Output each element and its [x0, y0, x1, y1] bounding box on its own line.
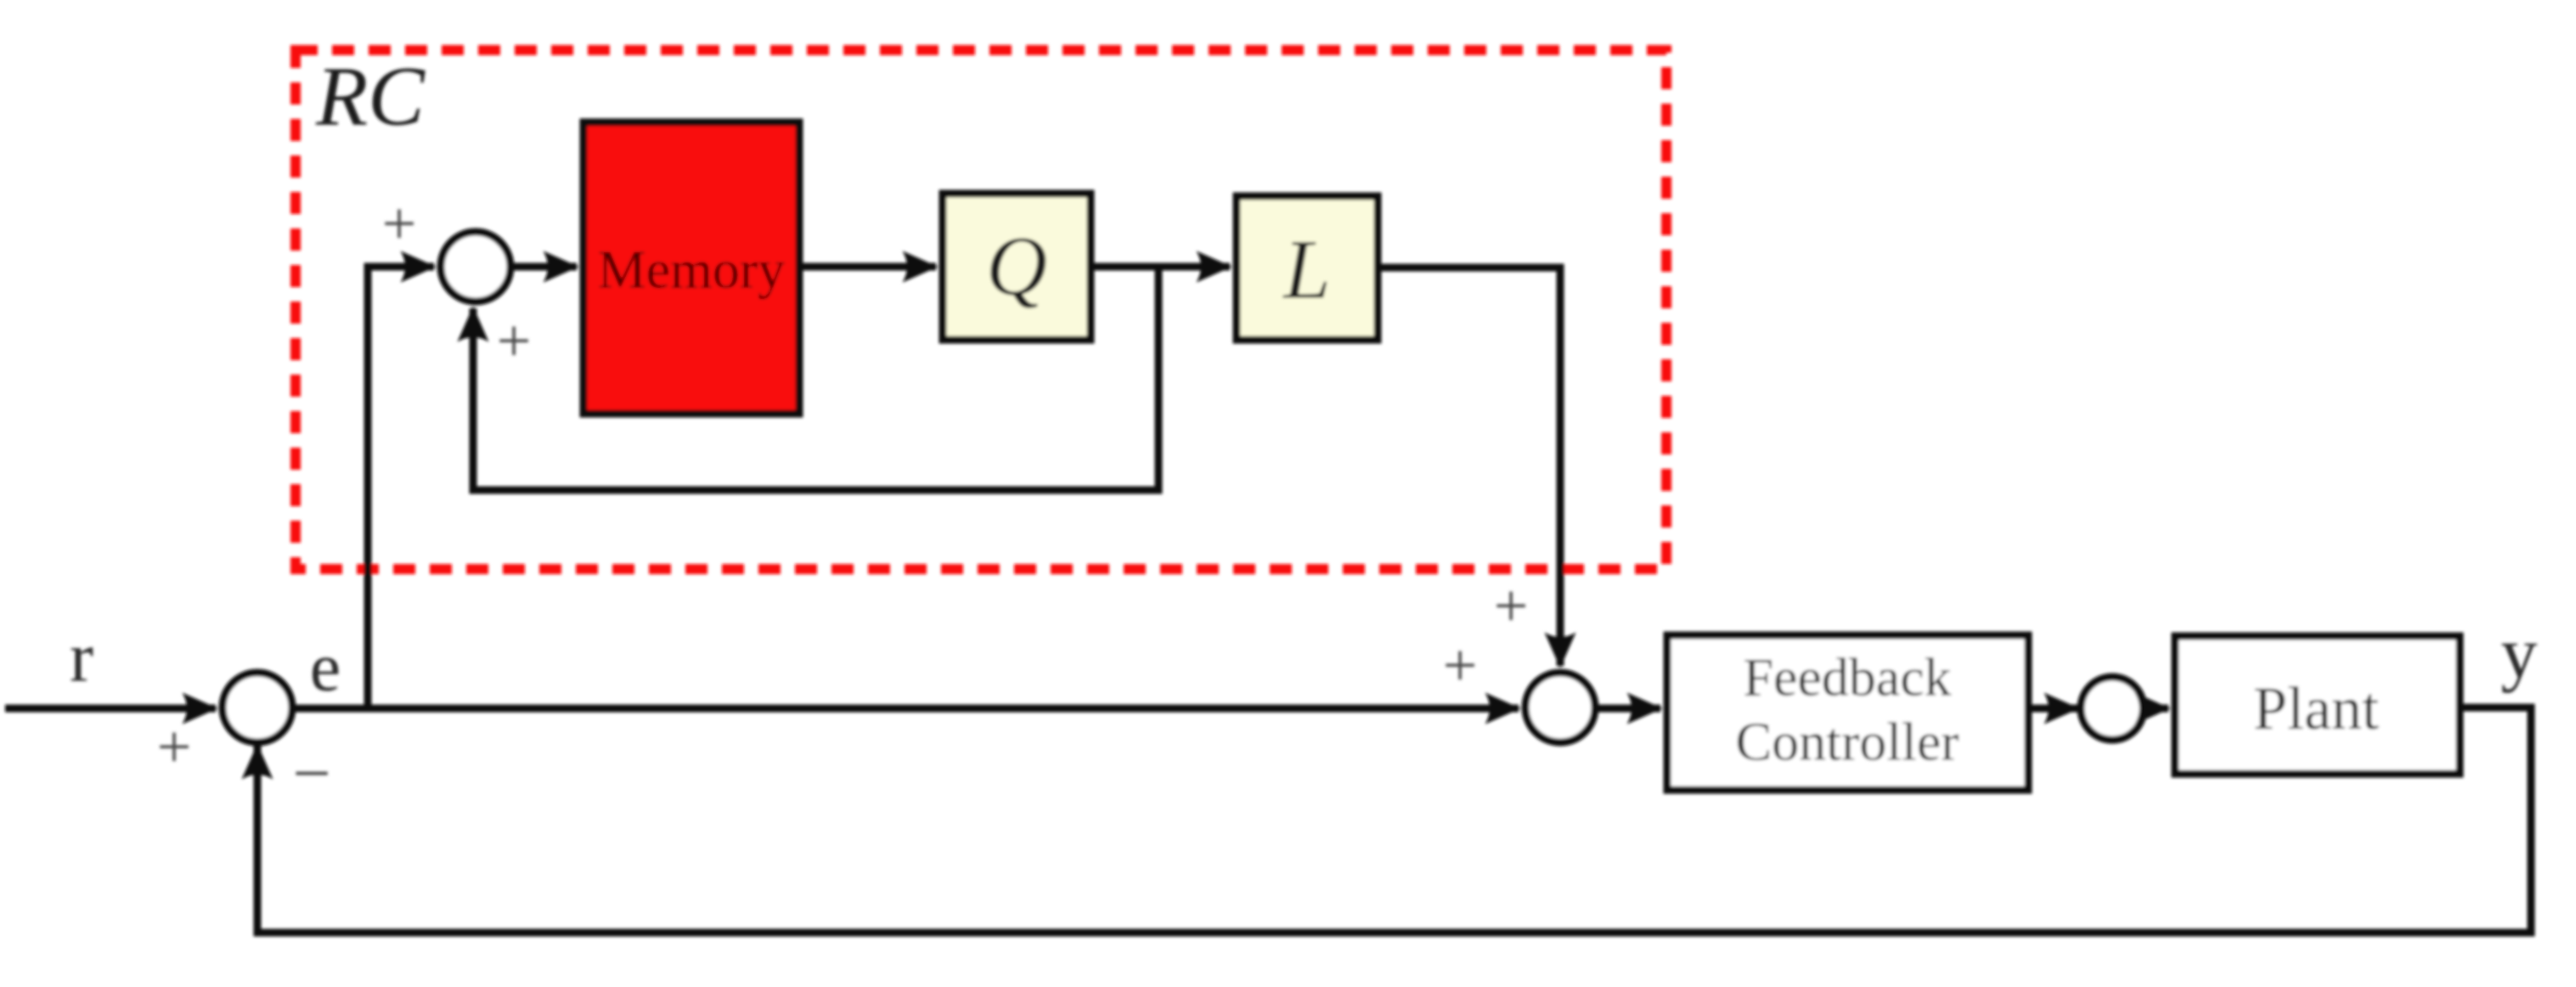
- wire S2 to Feedback Controller: [1595, 705, 1660, 713]
- block Q: [943, 194, 1091, 340]
- svg-text:+: +: [1494, 572, 1529, 640]
- svg-text:y: y: [2501, 612, 2538, 693]
- summing junction S2: [1525, 673, 1595, 742]
- summing junction S1: [441, 232, 510, 302]
- wire Memory to Q: [803, 263, 936, 271]
- svg-text:−: −: [292, 736, 330, 811]
- block Plant: [2175, 636, 2460, 774]
- svg-text:RC: RC: [315, 49, 426, 144]
- inner feedback wire from Q-L junction down and back to S1 bottom: [473, 267, 1158, 490]
- wire e from C1 to S2: [292, 705, 1519, 713]
- svg-text:Feedback: Feedback: [1743, 647, 1951, 708]
- wire S1 to Memory: [510, 263, 577, 271]
- wire C3 to Plant: [2144, 705, 2168, 713]
- wire e tap up to summing junction S1: [368, 267, 434, 708]
- svg-text:e: e: [310, 629, 341, 706]
- svg-text:Memory: Memory: [598, 240, 785, 300]
- wire Feedback Controller to junction circle C3: [2032, 705, 2077, 713]
- wire r input: [5, 705, 216, 713]
- svg-text:r: r: [70, 618, 93, 697]
- wire L output to summing junction S2: [1378, 268, 1560, 666]
- svg-text:Controller: Controller: [1735, 712, 1959, 772]
- junction circle C3: [2081, 677, 2144, 740]
- RC dashed boundary box: [296, 50, 1666, 569]
- svg-text:Plant: Plant: [2253, 674, 2379, 742]
- svg-text:+: +: [1443, 631, 1478, 699]
- svg-text:+: +: [382, 189, 417, 257]
- svg-text:+: +: [157, 713, 192, 781]
- wire Q to L: [1091, 263, 1230, 271]
- block Memory: [583, 122, 799, 414]
- svg-text:+: +: [497, 307, 532, 375]
- outer feedback wire y back to C1 bottom: [257, 708, 2531, 933]
- svg-text:L: L: [1282, 223, 1331, 317]
- svg-text:Q: Q: [986, 219, 1047, 313]
- block Feedback Controller: [1667, 635, 2028, 790]
- block L: [1237, 196, 1378, 340]
- summing junction C1: [223, 673, 292, 742]
